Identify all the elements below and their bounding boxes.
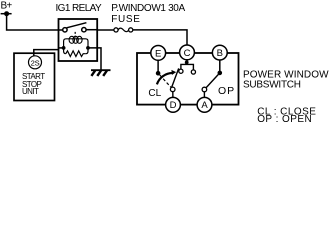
svg-text:UNIT: UNIT bbox=[22, 87, 39, 96]
terminal B bbox=[212, 45, 227, 60]
B contact dot bbox=[218, 71, 223, 76]
C junction node bbox=[185, 61, 189, 65]
fuse contact left bbox=[114, 28, 118, 32]
relay coil resistor zigzag bbox=[66, 51, 86, 57]
relay coil loops L1 bbox=[69, 36, 74, 43]
node relay coil right bbox=[86, 46, 90, 50]
svg-text:E: E bbox=[155, 48, 161, 59]
wire relay internal left bbox=[59, 29, 64, 31]
CL pivot contact bbox=[170, 87, 175, 92]
terminal E bbox=[151, 46, 166, 61]
svg-text:OP : OPEN: OP : OPEN bbox=[257, 114, 312, 125]
svg-text:P.WINDOW1 30A: P.WINDOW1 30A bbox=[111, 3, 185, 14]
fuse F1 element bbox=[118, 28, 129, 32]
wire coil left to box edge bbox=[59, 47, 64, 49]
connector 2S bbox=[29, 56, 42, 69]
terminal A bbox=[197, 97, 212, 112]
svg-text:IG1 RELAY: IG1 RELAY bbox=[56, 3, 102, 14]
wire coil right to ground bbox=[88, 48, 101, 70]
svg-text:2S: 2S bbox=[31, 58, 40, 67]
wire B+ to relay bbox=[7, 14, 59, 30]
OP pivot stem to A bbox=[203, 92, 205, 98]
CL moving arm bbox=[172, 68, 179, 87]
power window subswitch box bbox=[137, 53, 239, 105]
relay actuator dashed link bbox=[74, 32, 76, 39]
ground G1 hatches bbox=[91, 70, 95, 76]
node relay coil left bbox=[62, 46, 66, 50]
svg-text:CL: CL bbox=[148, 88, 161, 99]
CL throw arrow arc bbox=[157, 73, 173, 84]
ground G1 bar bbox=[91, 69, 111, 71]
svg-text:SUBSWITCH: SUBSWITCH bbox=[243, 80, 301, 91]
C contact right circle bbox=[191, 70, 195, 74]
svg-text:D: D bbox=[170, 100, 177, 111]
wire relay to fuse bbox=[97, 29, 114, 31]
svg-text:FUSE: FUSE bbox=[111, 14, 140, 25]
CL pivot stem to D bbox=[172, 92, 174, 99]
OP pivot contact bbox=[202, 87, 207, 92]
wire relay internal right bbox=[86, 29, 97, 31]
relay switch arm bbox=[67, 23, 87, 28]
C junction stem bbox=[186, 60, 188, 63]
relay box IG1 bbox=[59, 19, 98, 61]
CL dashed arm (alternate position) bbox=[160, 75, 172, 88]
wire relay to start-stop unit bbox=[34, 50, 59, 56]
battery terminal B+ bbox=[1, 13, 12, 15]
fuse contact right bbox=[129, 28, 133, 32]
E contact stem bbox=[157, 60, 159, 71]
relay contact left bbox=[63, 28, 67, 32]
terminal C bbox=[180, 45, 195, 60]
relay coil frame bbox=[64, 39, 88, 54]
start stop unit box bbox=[14, 53, 55, 100]
wire fuse to subswitch C bbox=[133, 30, 187, 46]
svg-text:A: A bbox=[201, 100, 208, 111]
terminal D bbox=[166, 97, 181, 112]
E contact dot bbox=[156, 71, 161, 76]
OP moving arm bbox=[206, 74, 218, 87]
svg-text:B+: B+ bbox=[1, 1, 13, 12]
svg-text:OP: OP bbox=[218, 85, 235, 97]
svg-text:B: B bbox=[217, 48, 223, 59]
C contact left circle bbox=[179, 69, 183, 73]
B contact stem bbox=[219, 60, 221, 71]
svg-text:C: C bbox=[184, 48, 191, 59]
C contact staple bbox=[181, 64, 194, 70]
relay contact right bbox=[82, 28, 86, 32]
